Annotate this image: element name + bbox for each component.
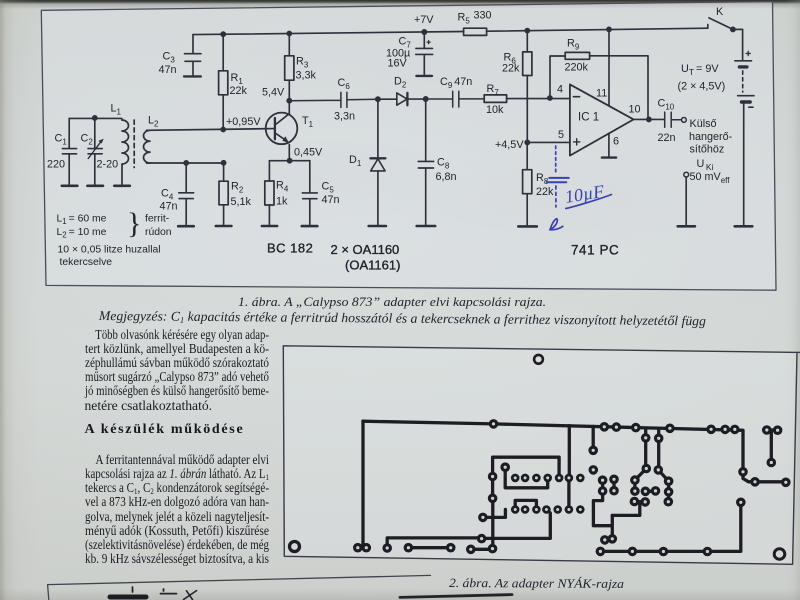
trace bottom horizontal b [408,546,450,549]
node rail/R6 [524,28,530,34]
resistor R9 feedback [550,52,648,119]
trace bottom-left cluster [483,509,506,517]
svg-text:tekercselve: tekercselve [60,257,113,268]
trace bar1 under IC row A [505,467,548,488]
diode D1 [370,99,385,226]
terminal output upper [682,118,687,123]
resistor R3 [285,34,294,101]
pcb frame figure 2 [283,346,800,565]
fig3 heavy line right [400,595,512,598]
trace ring cluster links [612,438,668,516]
caption figure 1 [238,295,546,309]
svg-text:5,4V: 5,4V [262,87,285,99]
trace bottom horizontal c with riser [471,498,493,549]
ground C5 [302,225,318,228]
ground C4 [178,225,194,228]
resistor R1 [219,34,228,129]
mounting hole bottom right [774,549,785,560]
trace rect loop above IC [493,457,559,498]
svg-text:220k: 220k [565,62,589,74]
svg-text:}: } [127,207,141,240]
wire tank top [69,117,120,119]
body text paragraph 1 [85,328,269,342]
svg-text:22k: 22k [502,63,520,75]
trace bottom right long [600,502,740,551]
node base/R1 [220,127,226,133]
trace left tall vertical [361,421,364,547]
svg-text:5,1k: 5,1k [231,196,252,208]
svg-text:sítőhöz: sítőhöz [690,144,725,156]
svg-text:10 × 0,05 litze huzallal: 10 × 0,05 litze huzallal [58,245,161,256]
pads figure 2 [353,419,791,556]
wire output [634,118,665,120]
svg-text:5: 5 [558,129,564,141]
svg-text:3,3n: 3,3n [334,111,355,123]
svg-text:220: 220 [47,159,65,171]
pin 11 wire [608,29,610,106]
body text paragraph 2 [85,453,269,467]
svg-text:rúdon: rúdon [145,227,172,238]
trace mid drop from top trace to IC [568,426,571,478]
ground output [678,225,695,228]
svg-text:(OA1161): (OA1161) [345,258,400,273]
diode D2 [378,93,426,105]
trace zigzag mid [569,426,614,538]
pin 6 wire [608,133,610,157]
svg-text:2-20: 2-20 [97,159,119,171]
resistor R8 [523,142,532,226]
svg-text:741 PC: 741 PC [571,243,619,258]
resistor R4 [265,161,274,226]
terminal output lower + wire [684,172,689,226]
wire L2 bottom to C4,R2 [147,162,224,164]
capacitor C9 [426,91,485,107]
svg-text:47n: 47n [322,194,340,206]
ground L1 [114,185,130,188]
megjegyzés note line [98,309,705,328]
wire emitter to R4 and C5 [269,160,309,162]
svg-text:22k: 22k [230,85,248,97]
node rail/pin11 [606,27,612,33]
core dashed line [133,120,135,168]
resistor R2 [219,163,228,226]
svg-text:+4,5V: +4,5V [495,139,524,151]
svg-text:UT= 9V: UT= 9V [681,63,719,77]
node D1/D2 junction [375,96,381,102]
node rail/C7 +7V [421,29,427,35]
battery UT [735,51,754,226]
node +4,5V [524,139,530,145]
mounting hole top center [534,355,543,364]
node rail/R3 [286,31,292,37]
svg-text:K: K [716,6,724,18]
svg-text:11: 11 [596,88,607,100]
node C4 top [183,160,189,166]
svg-text:C947n: C947n [440,76,472,90]
trace bottom horizontal a [387,510,550,548]
ground C1 [62,185,78,188]
svg-text:10k: 10k [486,104,504,116]
node collector 5,4V [286,98,292,104]
inductor L1 [120,118,128,185]
fig3 frame top/left [48,575,431,600]
svg-text:47n: 47n [159,64,177,76]
svg-text:1k: 1k [276,196,288,208]
svg-text:ferrit-: ferrit- [145,214,169,225]
switch K [708,18,736,32]
resistor R5 [464,28,487,35]
svg-text:10: 10 [629,104,641,116]
capacitor C4 [179,163,194,226]
resistor R7 [484,95,570,103]
svg-text:3,3k: 3,3k [296,70,317,82]
wire pin5 [527,141,570,143]
capacitor C10 [665,112,682,127]
svg-text:22n: 22n [658,132,676,144]
op-amp IC1 [570,84,634,155]
trace stub pads below top trace [646,430,659,438]
schematic frame figure 1 [41,2,776,291]
ground battery [735,225,753,228]
capacitor C3 [184,35,201,77]
ground C2 [87,185,103,188]
fig3 component marks [110,595,146,600]
node C2 top [92,115,98,121]
svg-text:IC 1: IC 1 [578,112,599,124]
trace top-right pair [767,430,778,463]
resistor R6 [523,31,532,143]
capacitor C5 [302,161,317,226]
ground R8 [518,225,537,228]
ground R4 [262,225,277,228]
capacitor C7 [416,32,433,76]
wire switch to battery [733,29,743,60]
ground D1 [369,225,386,228]
capacitor C2 (variable) [88,118,104,185]
capacitor C8 [418,99,434,226]
svg-text:16V: 16V [388,58,408,70]
svg-text:(2 × 4,5V): (2 × 4,5V) [678,81,726,93]
caption figure 2 [449,576,624,591]
svg-text:BC 182: BC 182 [267,241,313,256]
node emitter 0,45V [287,158,293,164]
svg-text:2 × OA1160: 2 × OA1160 [331,242,400,257]
node rail/R1 [220,31,226,37]
trace top long with right drop [363,421,786,482]
capacitor C6 [289,92,378,107]
svg-text:6: 6 [613,136,619,148]
wire base node +0,95V [147,129,275,131]
svg-text:4: 4 [557,84,563,96]
heading [85,423,245,437]
svg-text:330: 330 [474,10,492,22]
node pin4 feedback [547,95,553,101]
svg-text:0,45V: 0,45V [294,147,323,159]
svg-text:+7V: +7V [414,14,434,26]
ground C8 [417,225,436,228]
transistor T1 [266,101,298,161]
trace bar2 row B link [515,500,536,509]
node C8 top [423,96,429,102]
wire +7V top rail [193,28,708,34]
svg-text:22k: 22k [536,186,554,198]
svg-text:hangerő-: hangerő- [689,131,733,143]
inductor L2 [144,130,151,163]
mounting hole bottom left [290,542,300,552]
svg-text:Külső: Külső [690,118,717,130]
capacitor C1 [62,118,76,185]
svg-text:6,8n: 6,8n [436,171,457,183]
svg-text:+0,95V: +0,95V [226,116,261,128]
svg-text:47n: 47n [160,201,178,213]
handwritten blue annotation 10µF capacitor [547,146,612,230]
ground R2 [216,225,232,228]
node output pin10 [646,116,652,122]
node R2 top [221,160,227,166]
ground pin6 [602,156,616,158]
